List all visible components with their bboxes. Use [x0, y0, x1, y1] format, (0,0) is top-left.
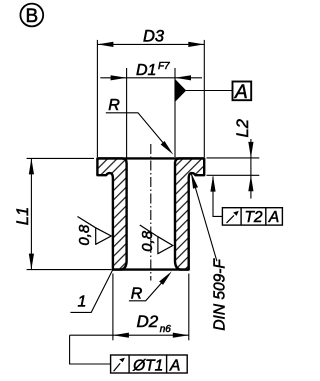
runout T2 leader	[213, 177, 222, 217]
roughness symbol bore wall	[140, 225, 173, 254]
svg-text:A: A	[234, 82, 248, 103]
svg-text:A: A	[169, 357, 180, 374]
dimension L1 extension bottom	[27, 269, 112, 271]
dimension L1 arrow bottom	[29, 254, 34, 270]
dimension D2 arrow right	[173, 333, 189, 338]
svg-text:T2: T2	[244, 209, 262, 226]
svg-text:1: 1	[78, 294, 87, 311]
section left half hatch	[97, 158, 126, 269]
runout T2 frame divider 1	[240, 208, 242, 225]
runout T1 frame divider 2	[166, 355, 168, 373]
bottom face edge line	[113, 268, 189, 270]
svg-text:R: R	[108, 97, 120, 114]
view label B circle	[20, 4, 43, 27]
outline left half	[97, 158, 126, 269]
dimension D1 arrow left	[111, 75, 127, 80]
runout T1 frame divider 1	[128, 355, 130, 373]
section right half hatch	[175, 158, 204, 269]
svg-text:ØT1: ØT1	[132, 357, 163, 374]
dimension D3 extension right	[203, 40, 205, 157]
undercut DIN 509-F leader	[191, 173, 217, 262]
svg-text:0,8: 0,8	[139, 230, 156, 252]
svg-text:L1: L1	[14, 207, 32, 225]
runout T2 symbol	[227, 215, 235, 223]
dimension L2 arrow bottom	[248, 175, 253, 191]
dimension L2 line	[250, 139, 252, 199]
runout T1 symbol	[114, 363, 121, 371]
dimension D1 arrow right	[175, 75, 191, 80]
dimension L1 line	[30, 158, 32, 269]
radius R bottom leader	[129, 275, 169, 301]
dimension L2 extension top	[207, 157, 260, 159]
dimension D1 extension right	[174, 68, 176, 157]
dimension L2 arrow top	[248, 142, 253, 158]
runout T1 symbol arrow	[119, 358, 125, 363]
dimension D3 line	[97, 43, 204, 45]
runout T2 frame	[222, 208, 282, 225]
datum A leader	[186, 90, 233, 92]
runout T2 frame divider 2	[265, 208, 267, 225]
radius R top leader	[106, 113, 170, 151]
datum A box	[233, 82, 252, 101]
top face edge line	[97, 157, 204, 159]
runout T2 leader arrow	[210, 176, 215, 192]
undercut DIN 509-F arrow	[189, 172, 199, 189]
runout T2 symbol arrow	[233, 211, 239, 216]
dimension D2 arrow left	[113, 333, 129, 338]
centerline	[150, 144, 152, 281]
svg-text:0,8: 0,8	[76, 224, 93, 246]
datum A triangle	[175, 79, 186, 101]
radius R bottom arrow	[159, 270, 174, 285]
runout T1 leader	[70, 335, 111, 364]
dimension D1 extension left	[126, 68, 128, 163]
svg-text:B: B	[25, 6, 38, 27]
roughness symbol outer wall	[78, 217, 112, 245]
item 1 leader	[70, 270, 112, 313]
svg-text:DIN 509-F: DIN 509-F	[212, 258, 229, 331]
svg-text:D3: D3	[143, 28, 165, 46]
dimension D3 arrow right	[188, 42, 204, 47]
dimension L1 arrow top	[29, 158, 34, 174]
dimension L2 extension bottom	[207, 174, 260, 176]
svg-text:A: A	[268, 209, 279, 226]
dimension L1 extension top	[27, 157, 94, 159]
svg-text:L2: L2	[234, 119, 252, 137]
runout T1 frame	[111, 355, 188, 373]
dimension D3 arrow left	[97, 42, 113, 47]
radius R top arrow	[161, 141, 176, 156]
outline right half	[175, 158, 204, 269]
dimension D2 extension left	[112, 274, 114, 341]
dimension D3 extension left	[96, 40, 98, 157]
dimension D2 line	[70, 334, 189, 336]
dimension D2 extension right	[188, 274, 190, 341]
dimension D1 line	[100, 77, 202, 79]
svg-text:R: R	[131, 286, 143, 303]
